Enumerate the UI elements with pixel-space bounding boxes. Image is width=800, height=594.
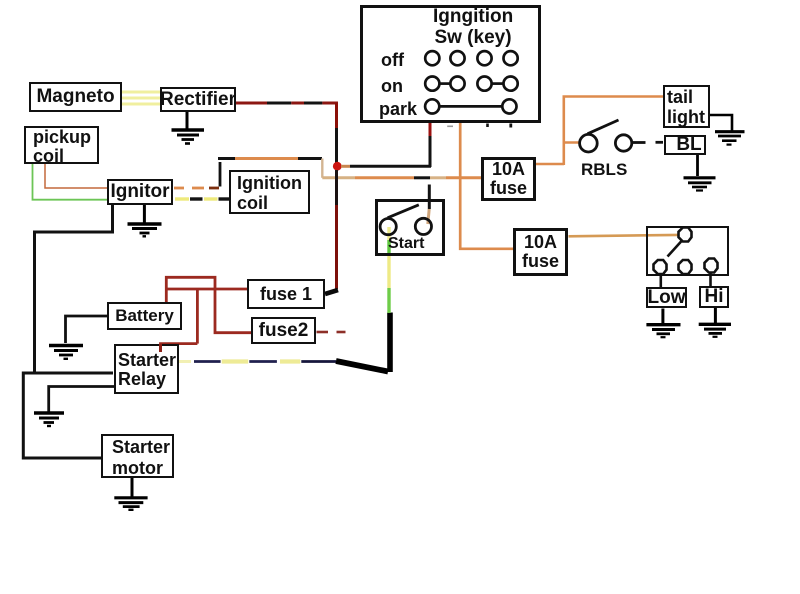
component box: Starter motor [101,434,174,478]
wire: switch to 10A fuse 2 (orange drop) [460,123,513,249]
dashed wire RBLS to BL [633,141,664,144]
label: park [379,99,417,120]
label: RBLS [581,160,627,180]
junction node (red dot) [333,162,342,171]
label: Igngition Sw (key) [433,7,513,48]
label: off [381,50,404,71]
component box: Magneto [29,82,122,112]
ground below starter relay [34,413,64,426]
component box: BL [664,135,706,155]
ground below starter motor [114,477,147,510]
wire: junction to ignition switch column (black) [341,122,431,167]
wire: junction down to fuse 1 (dark red) [325,170,338,294]
component box: 10A fuse 2 [513,228,568,276]
tail light right wire and ground [710,115,745,145]
component box: fuse 1 [247,279,325,309]
ground below Hi [699,308,731,337]
ground below BL [684,155,716,191]
coil HT terminal bar [219,162,222,187]
switch terminal ticks below box [447,124,511,128]
green/yellow wire from start switch [387,227,390,313]
wire A: coil terminal to 10A fuse 1 (orange/black) [218,159,481,178]
label: on [381,76,403,97]
relay lower-left wire to ground [49,387,114,412]
red battery/fuse rail [161,277,252,352]
ground below ignitor [128,204,162,236]
ignition switch contact circles [425,51,518,113]
label: Start [388,235,424,253]
ground below rectifier [172,112,205,144]
stub: headlight switch to Hi [709,273,712,287]
component box: Start switch [375,199,446,256]
component box: Starter Relay [114,344,179,394]
starter relay dashed wire (navy/yellow) [177,360,336,363]
ground below Low [646,309,680,338]
RBLS switch [580,120,632,152]
component box: 10A fuse 1 [481,157,536,201]
stub: headlight switch to Low [659,274,662,287]
wire: magneto to rectifier (3 yellow lines) [121,92,161,104]
component box: Ignitor [107,179,173,205]
battery left wire to ground [66,316,108,343]
ground left of battery [49,346,83,359]
component box: fuse2 [251,317,316,344]
wire: 10A fuse 1 to tail light and RBLS (orange) [536,97,663,166]
start switch circles and lever [380,205,431,235]
component box: Ignition switch [360,5,541,124]
component box: tail light [663,85,710,128]
component box: Low [646,287,687,308]
ignitor to coil dashed wire (yellow/black) [175,197,229,200]
component box: pickup coil [24,126,99,164]
wire: 10A fuse 2 to headlight switch (orange) [569,235,679,236]
pickup coil wires (orange and green) [33,164,109,200]
ignitor bottom-left black wire to relay and starter motor [23,204,113,458]
thick black wire (start to relay net) [336,313,390,373]
component box: Battery [107,302,182,330]
component box: Ignition coil [229,170,310,214]
wire: switch to start switch (black drop with tan tip) [428,185,430,225]
component box: headlight switch [646,226,729,276]
ignitor to coil dashed wire (orange) [174,187,219,190]
component box: Hi [699,286,729,308]
component box: Rectifier [160,87,236,112]
fuse2 dashed red wire [317,331,346,334]
headlight switch internals (octagon terminals + lever) [654,228,718,275]
wire: red stub over relay border [159,344,162,352]
wire: rectifier output to junction (red/black) [236,103,338,163]
